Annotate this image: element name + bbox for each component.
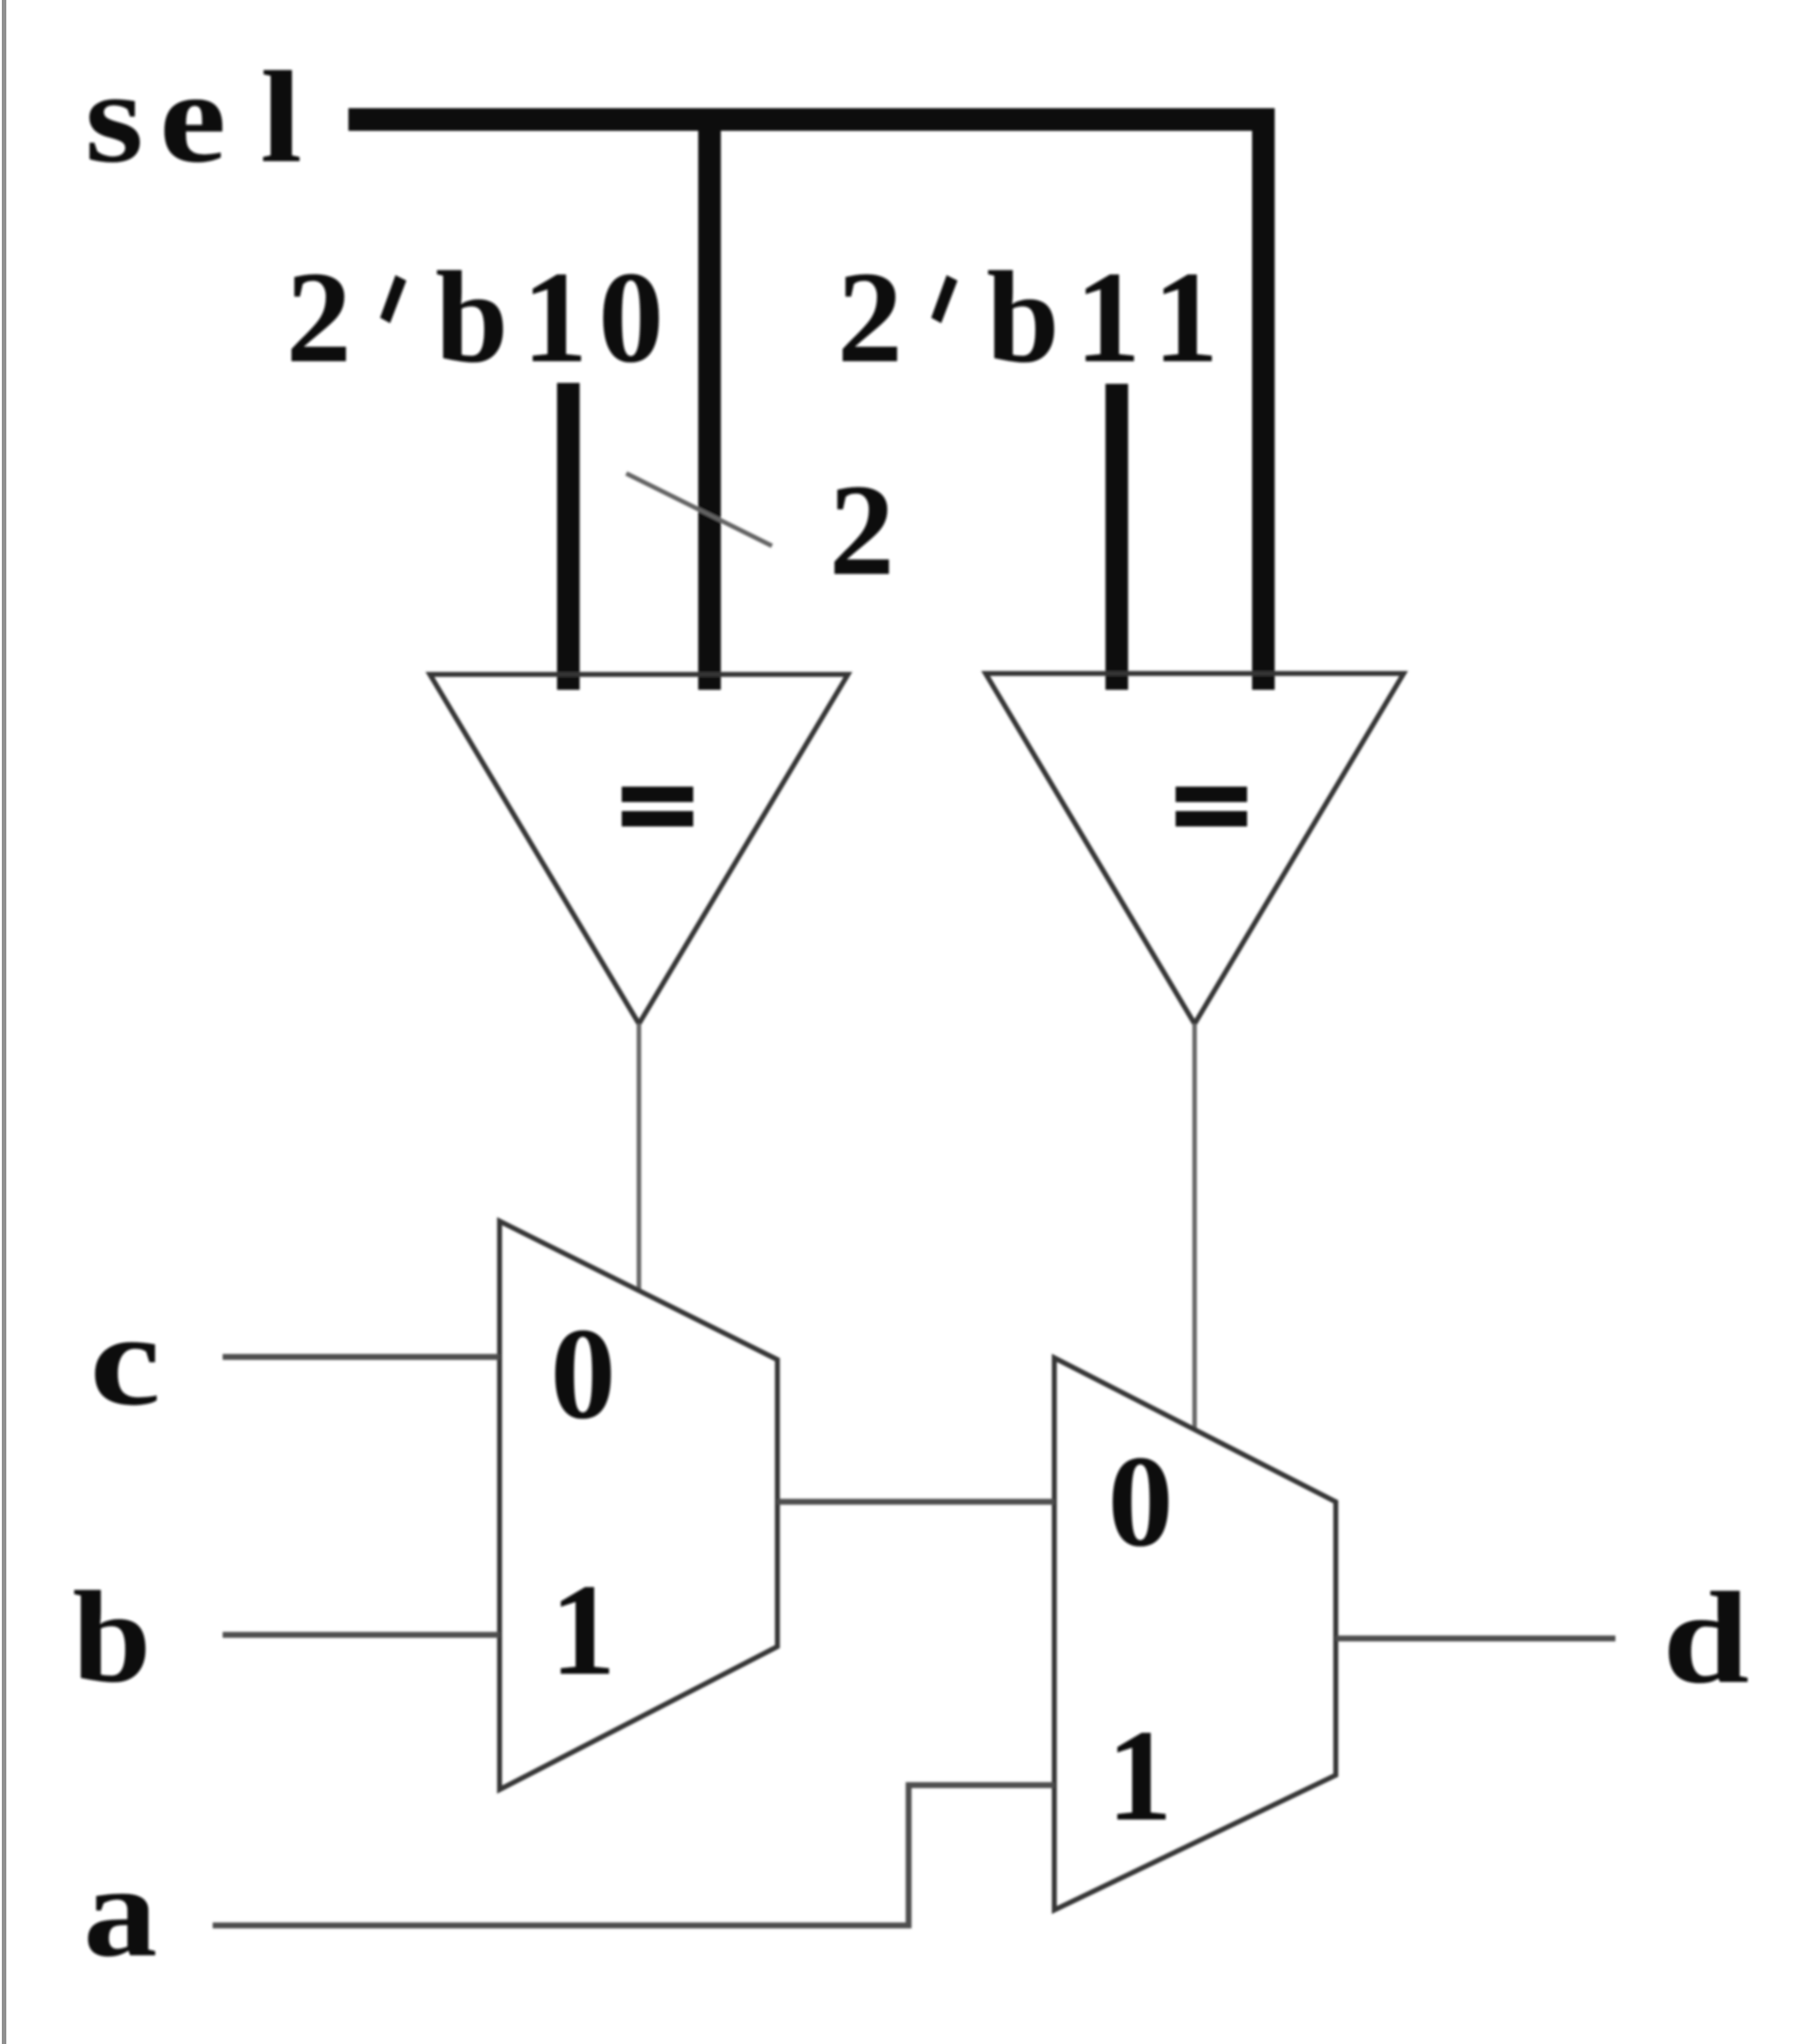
- svg-text:0: 0: [550, 1302, 616, 1447]
- svg-text:1: 1: [550, 1558, 616, 1703]
- svg-text:a: a: [83, 1839, 157, 1984]
- svg-text:2b11: 2b11: [837, 245, 1219, 390]
- svg-text:d: d: [1662, 1566, 1749, 1711]
- svg-text:c: c: [90, 1287, 161, 1432]
- svg-text:0: 0: [1108, 1429, 1174, 1574]
- svg-text:b: b: [72, 1564, 151, 1709]
- svg-text:sel: sel: [85, 44, 302, 190]
- svg-text:1: 1: [1107, 1704, 1173, 1848]
- svg-text:2b10: 2b10: [286, 245, 664, 390]
- svg-text:2: 2: [829, 458, 895, 603]
